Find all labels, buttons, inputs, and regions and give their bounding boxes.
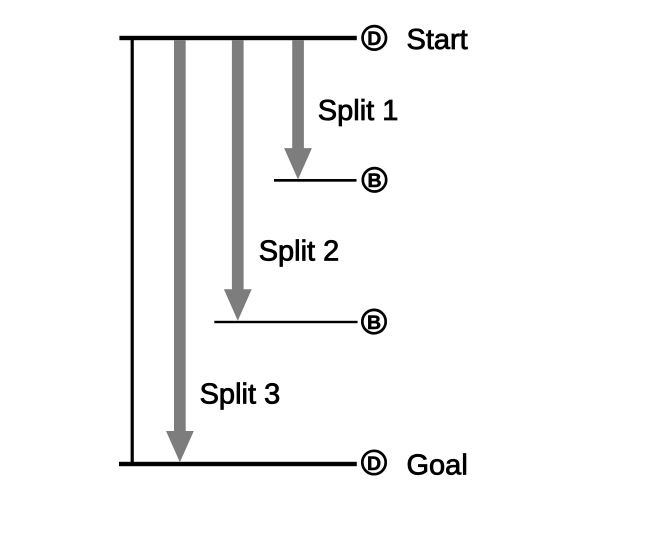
node D at start — [363, 26, 387, 50]
arrow Split 1 — [284, 40, 312, 179]
svg-text:D: D — [367, 28, 381, 50]
svg-text:Split 1: Split 1 — [318, 95, 399, 127]
wire split 2 level line — [214, 321, 357, 323]
svg-text:Split 3: Split 3 — [200, 378, 281, 410]
node B at split 2 — [362, 310, 385, 334]
wire left vertical line — [131, 38, 134, 464]
svg-text:B: B — [367, 170, 381, 192]
node B at split 1 — [363, 168, 386, 192]
svg-text:Start: Start — [407, 24, 468, 56]
wire split 1 level line — [274, 179, 357, 182]
arrow Split 3 — [166, 40, 194, 462]
arrow Split 2 — [224, 40, 252, 321]
node D at goal — [362, 451, 385, 475]
svg-text:B: B — [367, 312, 381, 334]
wire start line (top horizontal) — [119, 36, 356, 40]
svg-text:Split 2: Split 2 — [259, 236, 340, 268]
svg-text:D: D — [367, 453, 381, 475]
wire goal line (bottom horizontal) — [119, 462, 357, 466]
svg-text:Goal: Goal — [407, 450, 468, 482]
